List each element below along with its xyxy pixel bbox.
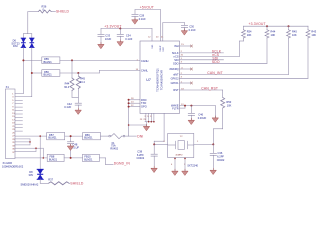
svg-text:FLTR: FLTR (172, 107, 178, 111)
ground between FB rows (68, 144, 74, 150)
capacitor C28 (134, 10, 136, 14)
svg-text:VIO: VIO (152, 45, 154, 49)
svg-text:DNI: DNI (13, 44, 18, 48)
svg-text:BLM21: BLM21 (84, 136, 93, 140)
wire CANL FB6 jog to U7 (60, 72, 100, 74)
svg-text:10K: 10K (271, 33, 276, 37)
svg-text:5: 5 (12, 100, 14, 102)
resistor R44 60.4 (71, 60, 73, 78)
ground WAKE line (212, 116, 218, 122)
node GND bus junctions (148, 121, 150, 123)
svg-text:X1: X1 (6, 85, 10, 89)
wire SDO (180, 62, 268, 64)
U7 bottom GND pins (129, 113, 154, 126)
svg-text:60.4: 60.4 (80, 80, 86, 84)
node rail R45 tap (288, 25, 290, 27)
svg-text:DNI: DNI (137, 135, 143, 139)
wire CANL to FB6 (32, 72, 42, 74)
svg-text:0.1UF: 0.1UF (64, 105, 71, 109)
svg-text:10K: 10K (227, 103, 232, 107)
fuse F1 (101, 134, 129, 139)
svg-text:SDO: SDO (173, 61, 179, 65)
node FB7 row junction (70, 135, 72, 137)
capacitor C36 (212, 144, 214, 153)
wire F1 riser to U7 RXD/TXD pins (128, 100, 130, 136)
wire termination node (72, 96, 78, 98)
svg-text:R37: R37 (48, 178, 53, 182)
capacitor C42 (77, 97, 79, 103)
connector X1 16x2 header (5, 89, 15, 159)
wire R36 to D6 (27, 12, 29, 34)
svg-text:6.2PF: 6.2PF (217, 154, 224, 158)
svg-text:GPO: GPO (141, 105, 147, 109)
svg-text:C46: C46 (198, 113, 203, 117)
ferrite bead FB6 (42, 70, 60, 77)
svg-text:+3.3VOUT: +3.3VOUT (104, 25, 121, 29)
ground crystal pin4 (172, 169, 178, 175)
crystal symbol (168, 141, 194, 150)
node CANL junction (31, 72, 33, 74)
ferrite bead FB5 (42, 57, 60, 64)
svg-text:+5VOUT: +5VOUT (140, 6, 154, 10)
+3.3VOUT rail left (101, 28, 152, 30)
svg-text:TXD: TXD (141, 101, 146, 105)
svg-text:C0402: C0402 (217, 158, 225, 162)
svg-text:X1 HDR: X1 HDR (3, 161, 13, 165)
svg-text:GPIO1: GPIO1 (171, 81, 179, 85)
svg-text:GPIO2: GPIO2 (171, 76, 179, 80)
svg-text:BLM21: BLM21 (44, 60, 53, 64)
svg-text:BLM21: BLM21 (84, 158, 93, 162)
wire D8 to R37 (39, 179, 41, 183)
svg-text:C38: C38 (137, 149, 142, 153)
ground U7 (144, 124, 150, 130)
svg-text:2: 2 (145, 116, 147, 118)
wire row1 stub to DNI label (129, 135, 137, 137)
svg-text:SMD02V/HKA2: SMD02V/HKA2 (21, 182, 39, 186)
svg-text:C33: C33 (105, 34, 110, 38)
svg-text:C0402: C0402 (137, 156, 145, 160)
svg-text:100HEADER16X2: 100HEADER16X2 (2, 165, 24, 169)
capacitor C34 (119, 29, 121, 34)
svg-text:VCC: VCC (163, 47, 165, 52)
svg-text:DGND_IN: DGND_IN (114, 161, 131, 165)
resistor R36 (28, 11, 38, 13)
svg-text:RST: RST (173, 88, 179, 92)
svg-text:C30: C30 (189, 25, 194, 29)
svg-text:Y2: Y2 (180, 136, 183, 138)
svg-text:R43: R43 (311, 30, 316, 34)
ground under C28 (132, 18, 138, 24)
svg-text:U7: U7 (146, 78, 151, 82)
resistor R50 10K (222, 90, 224, 98)
ground crystal pin2 (182, 169, 188, 175)
svg-text:7: 7 (12, 103, 14, 105)
TVS diode D8 (37, 169, 43, 179)
svg-text:1: 1 (12, 94, 14, 96)
ground under C46 (188, 118, 194, 124)
ferrite bead FB10 (83, 154, 100, 161)
connector pin stubs (15, 93, 23, 95)
resistor R37 (49, 182, 70, 185)
svg-text:CANH: CANH (141, 59, 148, 63)
svg-text:SCLK: SCLK (172, 51, 179, 55)
wire U7 VCCOUT to C30 (162, 23, 164, 41)
svg-text:0.1UF: 0.1UF (189, 28, 196, 32)
ground under C42 (75, 108, 81, 114)
svg-text:R45: R45 (292, 30, 297, 34)
wire FB7 to FB9 (65, 135, 83, 137)
resistor R43 10K (307, 26, 309, 30)
wire OSC1 routing (154, 113, 168, 144)
svg-text:14: 14 (136, 69, 139, 71)
node C38 tap (153, 143, 155, 145)
svg-text:BLM21: BLM21 (49, 158, 58, 162)
node ladder junctions (39, 135, 41, 137)
svg-text:CAN_INT: CAN_INT (207, 71, 223, 75)
op IC U7 TCAN4550 (140, 41, 180, 113)
svg-text:12: 12 (148, 37, 151, 39)
node C36 tap (212, 143, 214, 145)
svg-text:5: 5 (147, 116, 149, 118)
node R44 tap (71, 59, 73, 61)
svg-text:0.1UF: 0.1UF (139, 17, 146, 21)
wire RST CAN_RST (180, 89, 223, 91)
svg-text:1: 1 (197, 141, 199, 143)
svg-text:SHIELD: SHIELD (70, 181, 83, 185)
svg-text:9: 9 (150, 116, 152, 118)
svg-text:CAN_RST: CAN_RST (201, 87, 218, 91)
svg-text:SDI: SDI (174, 58, 179, 62)
capacitor C33 (100, 29, 102, 34)
TVS diode D6 (dual) (21, 38, 26, 47)
svg-text:R0402: R0402 (110, 147, 118, 151)
svg-text:10K: 10K (311, 33, 316, 37)
wire ladder to D8 (29, 139, 31, 145)
svg-text:nCS: nCS (174, 54, 179, 58)
svg-text:CANL: CANL (141, 69, 148, 73)
ground under C30 (181, 29, 187, 35)
svg-text:3: 3 (163, 141, 165, 143)
wire SCLK (180, 52, 224, 54)
wire crystal pin1 to C36 (194, 143, 214, 145)
svg-text:R34: R34 (247, 30, 252, 34)
+5VOUT rail (135, 9, 161, 11)
svg-text:10UF: 10UF (105, 37, 112, 41)
svg-text:R44: R44 (65, 81, 70, 85)
ferrite bead FB7 (47, 133, 65, 140)
wire CANH vertical (22, 48, 24, 94)
svg-text:SXT2240: SXT2240 (187, 163, 198, 167)
pin GPIO1 with no-connect (180, 82, 192, 84)
wire WAKE line down (214, 106, 216, 118)
ground under C33 (98, 42, 104, 48)
ground under C34 (117, 40, 123, 46)
wire +5V to U7 pin (160, 10, 162, 41)
svg-text:SHIELD: SHIELD (56, 10, 69, 14)
svg-text:R45: R45 (80, 77, 85, 81)
capacitor C30 (184, 23, 186, 25)
pin names right side (169, 44, 179, 110)
wire CANH to FB5 (23, 59, 41, 61)
svg-text:R50: R50 (226, 100, 231, 104)
svg-text:60.4: 60.4 (64, 85, 70, 89)
svg-text:20: 20 (156, 37, 159, 39)
svg-text:0.1UF: 0.1UF (125, 37, 132, 41)
pin nWKRQ with no-connect (180, 68, 192, 70)
svg-text:C36: C36 (218, 151, 223, 155)
wire FB8 to FB10 (64, 157, 82, 159)
svg-text:TCAN4550RGYR: TCAN4550RGYR (160, 70, 164, 90)
wire GPIO2 line (180, 77, 309, 79)
capacitor C46 (190, 106, 192, 113)
svg-text:RXD: RXD (141, 98, 147, 102)
svg-text:BLM21: BLM21 (44, 73, 53, 77)
node WAKE FLTR tie (184, 105, 186, 107)
svg-text:0.33UF: 0.33UF (198, 116, 207, 120)
svg-text:+3.3VOUT: +3.3VOUT (249, 22, 266, 26)
node rail R44 tap (266, 25, 268, 27)
svg-text:VSUP: VSUP (160, 45, 162, 51)
svg-text:21: 21 (161, 37, 164, 39)
wire rail to U7 VIO pin (151, 29, 153, 42)
wire FB10 to DGND_IN (99, 157, 105, 159)
wire SDI (180, 59, 224, 61)
svg-text:R44: R44 (271, 30, 276, 34)
svg-text:TCAN4550RGYTQ1: TCAN4550RGYTQ1 (156, 68, 160, 92)
wire CANH FB5 to U7 (60, 59, 140, 61)
node R45 tap (77, 72, 79, 74)
svg-text:40MHZ: 40MHZ (175, 155, 183, 157)
wire nCS (180, 55, 240, 57)
node crystal pin dots (174, 158, 176, 160)
wire nINT CAN_INT (180, 74, 289, 76)
svg-text:9: 9 (12, 107, 14, 109)
resistor R45b 10K (288, 26, 290, 30)
node C34 tap (119, 28, 121, 30)
crystal Y2 box (168, 133, 194, 157)
svg-text:6.2PF: 6.2PF (137, 153, 144, 157)
svg-text:nWKRQ: nWKRQ (169, 67, 179, 71)
resistor R45 60.4 (77, 73, 79, 76)
svg-text:SDO: SDO (212, 60, 220, 64)
svg-text:30V: 30V (29, 173, 34, 177)
capacitor C38 (153, 144, 155, 153)
svg-text:3: 3 (12, 97, 14, 99)
ground under C38 (151, 166, 157, 172)
wire crystal gnd pins (175, 158, 185, 171)
+3.3VOUT rail right (244, 25, 309, 27)
node riser junctions (128, 99, 130, 101)
svg-text:4: 4 (171, 164, 173, 166)
ferrite bead FB8 (47, 154, 64, 161)
svg-text:10K: 10K (292, 33, 297, 37)
resistor R44b 10K (266, 26, 268, 30)
capacitor C48 between rows (70, 136, 72, 142)
svg-text:nINT: nINT (173, 73, 179, 77)
svg-text:INH: INH (174, 44, 179, 48)
pin INH with no-connect (180, 45, 192, 47)
ground under C36 (210, 168, 216, 174)
wire CANL vertical (31, 48, 33, 97)
wire WAKE FLTR pins (180, 106, 216, 109)
svg-text:C34: C34 (126, 34, 131, 38)
node C46 tap (190, 105, 192, 107)
ferrite bead FB9 (83, 133, 101, 140)
svg-text:10K: 10K (247, 33, 252, 37)
svg-text:C28: C28 (139, 13, 144, 17)
node CANH junction (22, 59, 24, 61)
svg-text:BLM21: BLM21 (48, 136, 57, 140)
node FB8 row junction (70, 157, 72, 159)
resistor R34 10K (243, 26, 245, 30)
